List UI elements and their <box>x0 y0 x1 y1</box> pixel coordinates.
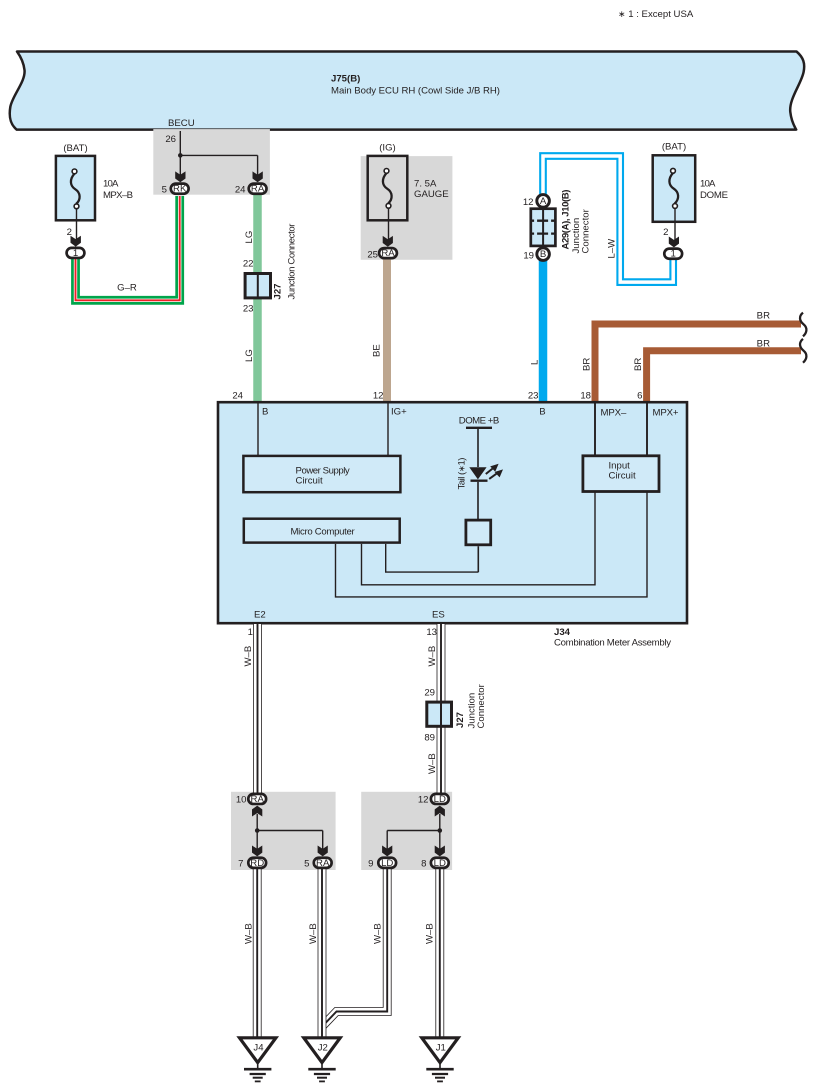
ground J4 <box>240 1038 276 1082</box>
svg-text:LD: LD <box>434 858 446 869</box>
lead fuse DOME to connector 1 <box>663 208 675 244</box>
svg-text:W–B: W–B <box>308 923 319 944</box>
svg-text:DOME +B: DOME +B <box>459 416 500 427</box>
arrow up into 12 LD <box>435 806 445 817</box>
svg-text:W–B: W–B <box>372 923 383 944</box>
ground J2 <box>304 1038 340 1082</box>
arrow into connector 1 (right) <box>669 237 679 248</box>
svg-text:24: 24 <box>232 391 243 402</box>
svg-text:22: 22 <box>243 259 254 270</box>
wire BECU pin 26 distribution <box>165 131 257 179</box>
svg-text:Micro Computer: Micro Computer <box>291 526 356 537</box>
svg-text:B: B <box>262 407 268 418</box>
svg-text:89: 89 <box>424 733 435 744</box>
arrow into RA (24) <box>253 171 263 182</box>
fuse MPX-B 10A (BAT) <box>56 143 133 220</box>
wire W-B from 8 LD to ground J1 <box>424 869 439 1039</box>
svg-text:L: L <box>530 359 541 365</box>
svg-text:24: 24 <box>235 184 246 195</box>
svg-text:J1: J1 <box>436 1043 446 1054</box>
svg-text:Main Body ECU RH (Cowl Side J/: Main Body ECU RH (Cowl Side J/B RH) <box>331 86 500 97</box>
svg-text:RA: RA <box>251 184 265 195</box>
svg-text:1: 1 <box>248 627 253 638</box>
svg-text:W–B: W–B <box>427 646 438 667</box>
connector 1 oval (DOME) <box>664 249 682 260</box>
svg-text:1: 1 <box>73 248 78 259</box>
svg-text:BR: BR <box>757 339 770 350</box>
connector pin 8 LD <box>421 858 449 870</box>
J34 pin labels top <box>232 391 679 419</box>
svg-text:E2: E2 <box>254 610 266 621</box>
note: Except USA <box>618 9 694 20</box>
svg-text:MPX+: MPX+ <box>653 408 679 419</box>
svg-text:W–B: W–B <box>424 923 435 944</box>
svg-text:Circuit: Circuit <box>609 471 637 482</box>
svg-text:A: A <box>540 196 547 207</box>
wire L-W from connector A to DOME fuse connector 1 <box>543 156 673 282</box>
DOME +B node <box>459 416 500 468</box>
svg-text:26: 26 <box>165 134 176 145</box>
svg-text:IG+: IG+ <box>391 407 407 418</box>
svg-text:23: 23 <box>243 304 254 315</box>
svg-text:MPX–B: MPX–B <box>103 190 133 201</box>
wire W-B from 7 RD to ground J4 <box>243 869 257 1039</box>
svg-text:RA: RA <box>251 794 265 805</box>
shield gray box lower-right connector <box>361 792 452 870</box>
J34 pin labels bottom <box>248 610 445 638</box>
connector pin 25 RA <box>367 248 397 260</box>
svg-text:W–B: W–B <box>243 646 254 667</box>
svg-text:7. 5A: 7. 5A <box>414 179 437 190</box>
arrow into 25 RA <box>383 236 393 247</box>
svg-text:∗ 1 : Except USA: ∗ 1 : Except USA <box>618 9 694 20</box>
svg-text:LD: LD <box>434 794 446 805</box>
wire BE from pin 25 RA to J34 pin 12 <box>372 260 388 404</box>
svg-text:W–B: W–B <box>427 753 438 774</box>
lead fuse GAUGE to pin 25 <box>388 208 390 244</box>
svg-text:RK: RK <box>173 184 187 195</box>
svg-text:6: 6 <box>637 391 642 402</box>
junction connector A29(A) J10(B) grid <box>531 190 592 254</box>
svg-text:10A: 10A <box>103 178 119 189</box>
svg-text:J27: J27 <box>455 712 466 728</box>
ground J1 <box>422 1038 458 1082</box>
svg-text:10: 10 <box>236 795 247 806</box>
svg-text:Combination Meter Assembly: Combination Meter Assembly <box>554 637 671 648</box>
svg-text:25: 25 <box>367 250 378 261</box>
svg-text:29: 29 <box>424 688 435 699</box>
svg-text:MPX–: MPX– <box>601 408 627 419</box>
svg-text:Junction Connector: Junction Connector <box>286 223 297 300</box>
svg-text:DOME: DOME <box>700 190 728 201</box>
connector 1 oval (left BAT) <box>67 248 85 259</box>
svg-text:LD: LD <box>381 858 393 869</box>
svg-text:L–W: L–W <box>607 238 618 259</box>
svg-text:LG: LG <box>244 231 255 244</box>
svg-text:J4: J4 <box>253 1043 264 1054</box>
wire BR lower (MPX+) <box>633 339 801 404</box>
svg-text:BE: BE <box>372 344 383 357</box>
svg-text:2: 2 <box>663 227 668 238</box>
connector pin 5 RK <box>162 184 189 196</box>
wire W-B from E2 to connector 10 RA <box>243 624 258 794</box>
svg-text:BR: BR <box>582 358 593 371</box>
lamp driver box <box>466 520 491 545</box>
wire W-B from 5 RA to ground J2 <box>308 869 322 1040</box>
LED emission arrows <box>486 464 503 479</box>
svg-text:23: 23 <box>528 391 539 402</box>
shield gray box BECU <box>153 129 270 195</box>
arrow into connector 1 (left) <box>71 236 81 247</box>
J34 internal leads <box>257 403 259 456</box>
wire W-B from 9 LD merging to J2 ground wire <box>323 869 387 1026</box>
svg-text:5: 5 <box>304 859 309 870</box>
svg-text:13: 13 <box>426 627 437 638</box>
svg-text:J75(B): J75(B) <box>331 74 360 85</box>
wire LG from pin 24 RA to J34 pin 24 <box>244 195 258 403</box>
lower-right connector internal wiring <box>387 814 442 851</box>
fuse GAUGE 7.5A (IG) <box>368 143 449 221</box>
svg-text:10A: 10A <box>700 179 716 190</box>
LED Tail lamp <box>456 458 487 573</box>
svg-text:J2: J2 <box>318 1043 328 1054</box>
wire G-R from connector 1 to pin 5 RK <box>76 196 180 300</box>
svg-text:W–B: W–B <box>243 923 254 944</box>
fuse DOME 10A (BAT) <box>653 142 728 222</box>
svg-text:RA: RA <box>381 248 395 259</box>
arrow down into 9 LD <box>382 846 392 857</box>
svg-text:BECU: BECU <box>168 118 195 129</box>
svg-text:A29(A), J10(B): A29(A), J10(B) <box>560 190 571 250</box>
svg-text:RD: RD <box>250 858 264 869</box>
svg-text:GAUGE: GAUGE <box>414 189 449 200</box>
svg-text:J27: J27 <box>273 283 284 299</box>
svg-text:12: 12 <box>523 197 534 208</box>
lower-left connector internal wiring <box>255 814 323 851</box>
svg-text:19: 19 <box>523 251 534 262</box>
arrow up into 10 RA <box>252 806 262 817</box>
break symbol BR upper <box>800 313 806 337</box>
connector pin 5 RA <box>304 858 331 870</box>
svg-text:B: B <box>540 249 546 260</box>
wire W-B from ES through J27 to connector 12 LD <box>427 624 441 794</box>
arrow down into 5 RA <box>318 846 328 857</box>
svg-text:Connector: Connector <box>580 208 591 253</box>
svg-text:1: 1 <box>671 249 676 260</box>
connector A (pin 12) <box>523 195 550 208</box>
shield gray box IG fuse <box>361 156 453 260</box>
svg-text:Circuit: Circuit <box>296 476 324 487</box>
svg-text:(IG): (IG) <box>379 143 396 154</box>
svg-text:8: 8 <box>421 859 426 870</box>
svg-text:Tail (∗1): Tail (∗1) <box>456 458 467 490</box>
arrow into RK <box>175 171 185 182</box>
shield gray box lower-left connector <box>231 792 336 870</box>
connector pin 12 LD <box>418 794 449 806</box>
svg-text:ES: ES <box>432 610 445 621</box>
svg-text:18: 18 <box>580 391 591 402</box>
arrow down into 8 LD <box>435 846 445 857</box>
svg-text:12: 12 <box>373 391 384 402</box>
connector pin 9 LD <box>368 858 396 870</box>
input circuit box <box>583 456 659 492</box>
junction connector J27 upper (22/23) <box>243 223 297 315</box>
svg-text:Connector: Connector <box>476 683 487 728</box>
connector pin 10 RA <box>236 794 266 806</box>
arrow down into 7 RD <box>252 846 262 857</box>
micro computer box <box>244 519 400 543</box>
connector pin 7 RD <box>238 858 266 870</box>
power supply circuit box <box>243 456 400 492</box>
wire L from connector B to J34 pin 23 <box>530 261 544 404</box>
svg-text:B: B <box>539 407 545 418</box>
svg-text:12: 12 <box>418 795 429 806</box>
connector B (pin 19) <box>523 248 549 262</box>
svg-text:G–R: G–R <box>117 283 137 294</box>
svg-text:(BAT): (BAT) <box>662 142 686 153</box>
svg-text:5: 5 <box>162 184 167 195</box>
svg-text:LG: LG <box>244 349 255 362</box>
svg-text:(BAT): (BAT) <box>63 143 87 154</box>
connector pin 24 RA <box>235 184 267 196</box>
junction connector J27 lower (29/89) <box>424 683 487 743</box>
svg-text:BR: BR <box>757 311 770 322</box>
break symbol BR lower <box>800 339 806 363</box>
svg-text:RA: RA <box>316 858 330 869</box>
ECU box J34 Combination Meter Assembly <box>218 402 687 648</box>
lead fuse MPX-B to connector 1 <box>67 208 77 243</box>
svg-text:9: 9 <box>368 859 373 870</box>
svg-text:7: 7 <box>238 859 243 870</box>
junction block J75(B) Main Body ECU banner <box>10 52 804 130</box>
svg-text:BR: BR <box>633 358 644 371</box>
wire BR upper (MPX-) <box>582 311 802 404</box>
